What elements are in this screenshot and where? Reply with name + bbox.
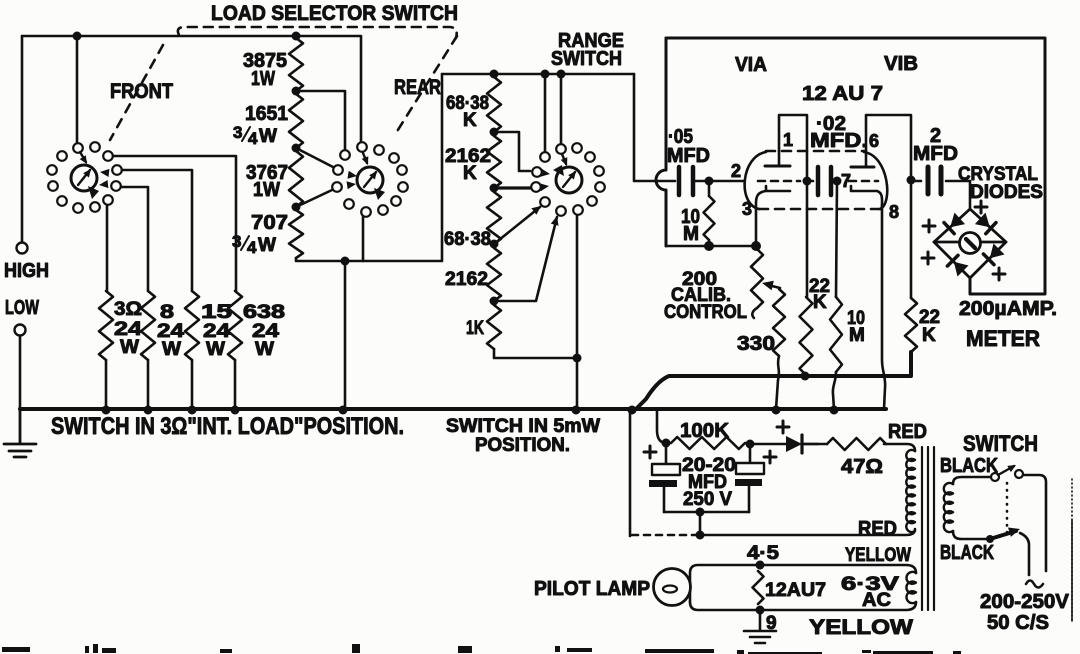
resistor 330 [773,289,785,356]
svg-text:3: 3 [742,199,752,219]
svg-text:K: K [463,110,477,131]
svg-text:W: W [162,339,181,360]
wire range riser B [560,74,563,144]
rotary switch REAR selector arrow mid [348,171,358,179]
wire grid VIB down [836,183,837,297]
transformer primary winding [906,450,915,532]
svg-text:200-250V: 200-250V [980,591,1070,613]
resistor 3875 1W [289,38,303,91]
wire heater rail to transformer [700,529,915,535]
resistor 15 ohm 24W [185,291,199,360]
switch contact b [1015,470,1023,478]
wire heater rail dashed segment [632,534,697,537]
wire range riser A [544,74,547,152]
svg-text:RED: RED [888,421,927,443]
rectifier diode out wire [802,443,827,446]
rotary switch RANGE rotor contact blob [553,165,564,176]
resistor 707 3/4W [289,210,303,258]
svg-text:REAR: REAR [394,76,441,99]
capacitor .02 MFD [807,180,813,183]
rotary switch REAR contact ring [357,142,367,152]
node range rail riser A [541,70,550,79]
enclosure box top and right [666,38,1045,294]
rotary switch FRONT contact ring [73,143,83,153]
node bus 10M return [830,406,839,415]
node heater pin 9 [756,606,765,615]
rotary switch FRONT selector arrow low [99,180,108,188]
svg-text:BLACK: BLACK [940,455,998,477]
node 100K left [662,439,671,448]
node bus heater feed [628,406,637,415]
svg-text:RED: RED [858,518,897,540]
rotary switch FRONT rotor contact blob [88,186,99,199]
switch contact a [991,473,999,481]
wire divider bottom to ground bus [344,261,347,409]
transformer core [921,447,923,610]
svg-text:VIB: VIB [884,53,918,75]
tube VIB plate [851,166,874,169]
node bus 3ohm [102,406,111,415]
bridge crossbar to meter [934,241,1006,244]
svg-text:SWITCH IN 5mW: SWITCH IN 5mW [446,416,600,437]
svg-text:3: 3 [232,232,241,251]
svg-text:METER: METER [966,326,1040,351]
resistor 1K [487,305,501,349]
scan artifact page edge right [1071,479,1073,621]
wire bus drop to heater rail [629,410,632,536]
resistor 10M grid VIA [708,181,711,196]
svg-text:FRONT: FRONT [110,80,173,103]
switch blade upper [998,466,1014,475]
transformer HT secondary winding [944,483,953,532]
node range rail 68.38K [490,70,499,79]
svg-text:K: K [922,325,936,346]
scan artifact strip bottom edge [2,647,30,652]
node cathode rail pin3 [751,241,761,251]
svg-text:6: 6 [869,131,879,151]
heater loop wiring [690,565,916,602]
wire diagonal tap to range contact 3 [494,207,540,244]
tube 12AU7 envelope bottom dashed [759,208,880,211]
svg-text:SWITCH: SWITCH [963,431,1038,456]
resistor 638 ohm 24W [228,291,242,360]
svg-text:1651: 1651 [245,103,288,125]
svg-text:8: 8 [160,302,174,323]
plus mark bridge top [975,201,987,213]
ground symbol left [4,409,36,457]
terminal HIGH [17,243,28,254]
wire HT secondary top tap [953,477,991,484]
diode bridge lower-right [990,244,1005,259]
svg-text:HIGH: HIGH [4,260,49,282]
svg-text:M: M [683,223,699,245]
wire cathode rail VIA [666,245,756,248]
wire 2MFD to bridge top [969,181,972,209]
svg-text:POSITION.: POSITION. [475,435,570,456]
wire tap to range contact 2 [494,186,530,189]
rotary switch RANGE diag arrowhead 3 [531,206,541,215]
svg-text:MFD.: MFD. [810,130,868,152]
resistor 68.38K [487,77,501,132]
node divider 3767-707 [292,203,301,212]
resistor 3767 1W [289,151,303,207]
resistor 2162K [487,136,501,188]
svg-text:W: W [120,337,139,358]
svg-text:K: K [813,292,827,313]
node divider 3875-1651 [292,87,301,96]
rotary switch FRONT selector arrow from top contact [80,152,86,162]
wire HIGH terminal riser [21,36,24,242]
terminal LOW [15,325,26,336]
node 2162K-68.38 [490,184,499,193]
plus mark cap1 [644,446,656,458]
rotary switch RANGE selector arrow low [540,183,550,191]
svg-text:8: 8 [889,202,899,222]
switch blade lower [990,531,1016,539]
rotary switch RANGE selector arrow top [562,154,566,164]
svg-text:W: W [258,235,276,256]
meter 200uA movement [960,233,981,254]
ground bus rail [20,407,886,411]
wire rail to REAR bottom contact [362,217,365,261]
tube 12AU7 envelope right arc [864,152,887,209]
resistor 68.38 [487,192,501,244]
svg-text:VIA: VIA [735,54,767,76]
svg-text:12AU7: 12AU7 [765,580,826,601]
svg-text:W: W [259,126,277,147]
resistor 1651 3/4W [289,94,303,148]
wire mains lead left [1020,533,1029,575]
wire range common to ground bus [576,215,579,409]
node bus 8ohm [144,406,153,415]
wire range frame left riser [441,74,444,260]
heater element 12AU7 [753,571,764,604]
plus mark bridge lower-right [993,268,1005,280]
wire top bus from HIGH to REAR switch [22,36,361,141]
wire tap to range contact 1 [494,132,530,171]
mains AC squiggle [1026,581,1043,588]
wire 8 ohm return [147,360,150,409]
svg-text:BLACK: BLACK [940,542,994,564]
switch dashed link [1006,483,1009,537]
plus mark bridge lower-left [922,252,934,264]
node switch pivot [986,535,994,543]
wire 15 ohm return [191,360,194,409]
wire 330 to bus with jog [776,356,779,409]
potentiometer 200 calib control [751,249,763,308]
tube VIA plate [765,165,790,168]
rotary switch RANGE selector arrow mid [541,169,551,177]
node top bus / FRONT riser [73,32,82,41]
svg-text:12 AU 7: 12 AU 7 [802,83,883,105]
node bus 15ohm [188,406,197,415]
node bus 638ohm [231,406,240,415]
svg-text:W: W [206,339,225,360]
svg-text:1K: 1K [466,318,484,339]
enclosure box left edge with hop over grid wire [656,38,666,246]
resistor 22K anode VIB [905,298,917,352]
wire 10M VIB to bus [833,372,836,409]
node grid VIA [705,177,714,186]
rail output bottom [637,352,911,408]
rotary switch RANGE body [556,167,582,193]
svg-text:MFD: MFD [913,143,958,165]
tube VIA cathode [756,186,790,246]
svg-text:2: 2 [731,161,741,181]
node divider 1651-3767 [292,144,301,153]
resistor 47 ohm [827,438,886,450]
wire 3 ohm return [105,360,108,409]
plus mark diode [777,421,789,433]
resistor 22K anode VIA [800,297,813,375]
rotary switch REAR body [357,167,383,193]
node divider bottom [341,257,350,266]
node grid VIB pin 7 [833,177,842,186]
svg-text:707: 707 [251,212,288,234]
node 68.38K-2162K [490,128,499,137]
wire switch to mains lead right [1023,475,1046,571]
node filter bottom [696,508,705,517]
diode bridge upper-left [950,213,965,228]
rotary switch REAR selector arrow top [363,153,367,163]
wire 47 ohm to transformer [884,444,915,451]
resistor 100K [671,437,745,449]
svg-text:1W: 1W [253,179,280,201]
svg-text:SWITCH: SWITCH [551,48,622,70]
node anode VIA .02 cap [803,177,812,186]
wire 3767 tap to REAR switch [296,148,333,167]
svg-text:CONTROL: CONTROL [664,302,747,323]
tube VIB cathode [851,186,882,206]
svg-text:LOW: LOW [5,297,39,319]
rotary switch REAR wiper arrow [364,172,376,187]
svg-text:4: 4 [247,238,257,257]
svg-text:7: 7 [841,171,851,191]
capacitor 2 MFD [911,180,921,183]
wire filter to heater rail [699,512,702,534]
tube VIA grid dashes [758,180,800,183]
node anode VIB 2MFD [907,176,916,185]
rotary switch RANGE diag arrowhead 4 [551,216,559,226]
diode bridge upper-right [975,213,990,228]
node range common [573,354,582,363]
rotary switch FRONT body [71,165,97,191]
rotary switch REAR rotor contact blob [374,188,385,200]
svg-text:47Ω: 47Ω [841,456,883,478]
svg-text:W: W [255,339,274,360]
capacitor .05 MFD [677,167,682,195]
svg-text:250 V: 250 V [683,489,732,510]
node heater rail [696,531,705,540]
resistor 10M grid VIB [830,297,842,372]
svg-text:LOAD SELECTOR SWITCH: LOAD SELECTOR SWITCH [211,2,458,25]
node range rail riser B [557,70,566,79]
wire bus to 100K node [657,409,665,443]
pilot lamp [654,569,691,606]
svg-text:4: 4 [248,129,258,148]
wire 638 ohm return [234,360,237,409]
plus mark cap2 [764,451,776,463]
capacitor 20MFD a [665,443,668,464]
node 68.38-2162 [490,240,499,249]
wire 1K bottom to range common [494,349,577,358]
svg-text:2162: 2162 [445,269,488,290]
node 2162-1K [490,297,499,306]
resistor 3 ohm 24W [99,291,113,360]
rotary switch FRONT selector arrow mid [100,169,109,177]
svg-text:DIODES: DIODES [970,182,1043,203]
node 100K right [746,440,755,449]
wire HT secondary bottom tap [953,531,987,539]
rectifier diode [750,443,786,446]
wire FRONT contact to 15 ohm load [122,170,192,291]
svg-text:YELLOW: YELLOW [845,545,911,566]
svg-text:3Ω: 3Ω [114,299,142,320]
node 22K rail [801,372,810,381]
wire VIB anode loop to output [866,115,911,298]
wire range rail to .05 cap [634,74,675,181]
tube 12AU7 envelope left arc [745,152,766,209]
wire FRONT contact to 8 ohm load [121,187,148,291]
capacitor 20MFD b [749,444,752,463]
wire divider bottom rail [296,258,442,261]
wire LOW terminal to ground bus [19,336,22,409]
svg-text:K: K [463,163,477,184]
node bus range common [572,406,581,415]
wire VIA anode loop to coupling [779,115,807,297]
plus mark bridge upper-left [923,220,935,232]
node cathode rail 10M [704,241,714,251]
node bus 330 return [772,406,781,415]
tube 12AU7 envelope top dashed [766,150,864,153]
resistor 2162 [487,248,501,301]
rotary switch REAR selector arrow low [347,181,357,189]
potentiometer wiper arrow [768,285,780,288]
dashed pointer to REAR switch [396,36,457,133]
diode bridge lower-left [954,262,969,277]
svg-text:M: M [849,325,865,346]
svg-text:100K: 100K [680,420,730,442]
dashed leader under LOAD SELECTOR SWITCH label [178,27,457,38]
svg-text:330: 330 [737,333,775,355]
ground symbol pin 9 [744,610,776,643]
wire 1651 tap to REAR switch [296,91,345,150]
wire filter bottom rail [664,511,749,514]
svg-text:68·38: 68·38 [444,229,491,250]
svg-text:YELLOW: YELLOW [809,616,913,639]
wire 707 tap to REAR switch [296,190,332,207]
svg-text:SWITCH IN 3Ω"INT. LOAD"POSITIO: SWITCH IN 3Ω"INT. LOAD"POSITION. [51,413,404,440]
svg-text:MFD: MFD [667,145,710,167]
wire cathode VIB to bus with jog [882,205,885,409]
wire tap to range contact 4 [494,217,557,301]
rotary switch FRONT wiper arrow [78,170,90,185]
wire FRONT contact to 3 ohm load [106,205,109,291]
svg-text:200µAMP.: 200µAMP. [959,298,1057,320]
svg-text:PILOT LAMP: PILOT LAMP [534,578,650,600]
wire range switch top rail [442,73,634,76]
svg-text:4·5: 4·5 [747,543,779,564]
tube VIB grid dashes [849,180,878,183]
resistor 8 ohm 24W [141,291,155,360]
bridge crystal diodes diamond [934,209,1006,278]
dashed pointer to FRONT switch [110,45,163,140]
rotary switch RANGE contact ring [556,144,566,154]
svg-text:15: 15 [201,302,233,323]
svg-text:638: 638 [243,302,285,323]
svg-text:1: 1 [783,130,793,150]
wire FRONT switch top contact riser [76,36,79,143]
rotary switch RANGE wiper arrow [563,172,575,187]
svg-text:1W: 1W [251,68,275,90]
svg-text:50 C/S: 50 C/S [987,612,1049,634]
node heater pin 4-5 [756,561,765,570]
wire FRONT contact to 638 ohm load [113,156,236,291]
svg-text:3: 3 [233,123,242,142]
svg-text:AC: AC [862,590,891,611]
wire .05 cap to grid pin 2 [693,180,744,183]
node bus divider return [339,406,348,415]
node top bus / divider top [292,32,301,41]
